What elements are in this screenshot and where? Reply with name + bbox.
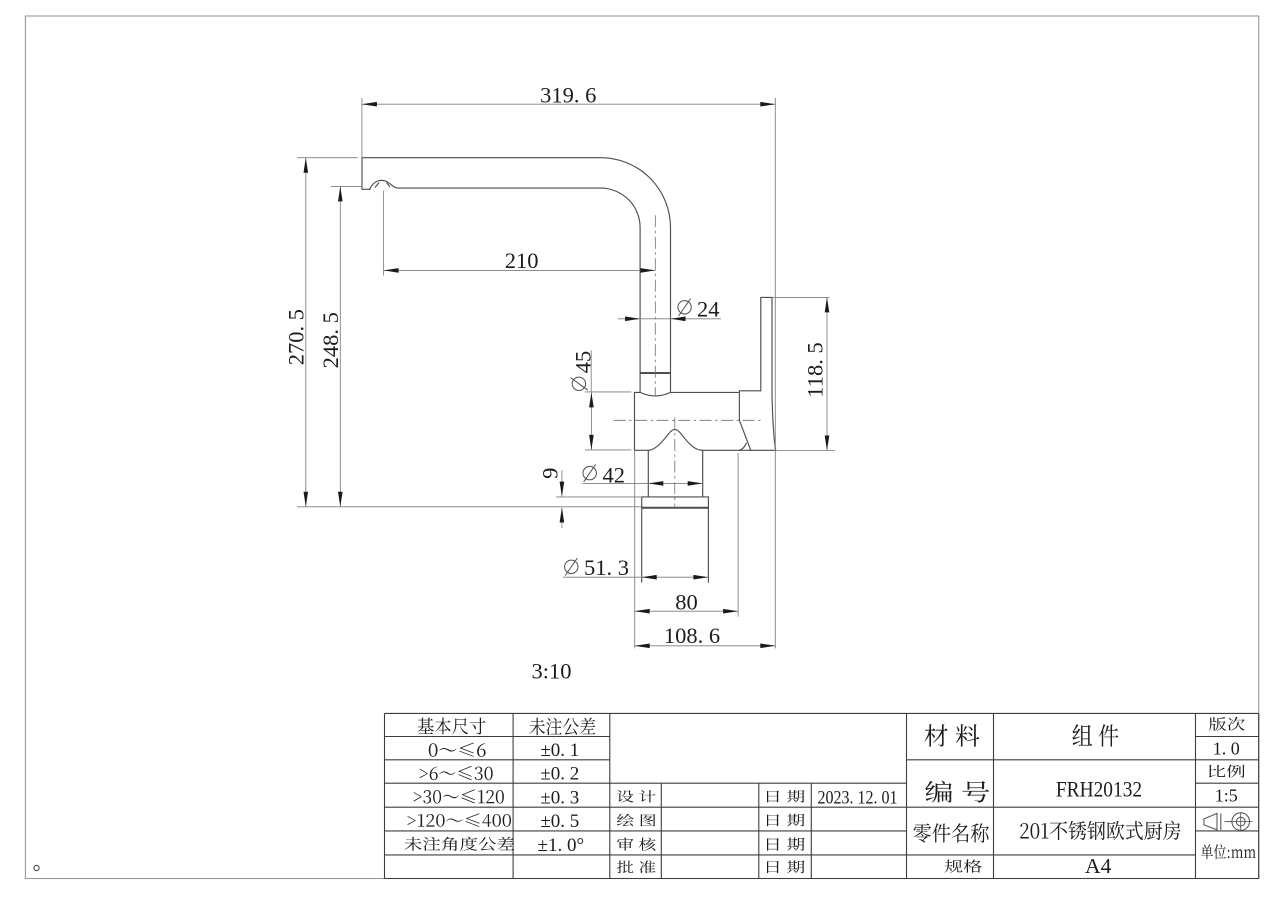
- text tol range row1: 0～≤6: [429, 743, 486, 757]
- svg-text:42: 42: [603, 462, 626, 487]
- dim 248.5 arrow top: [338, 186, 343, 201]
- base centerline: [674, 418, 676, 509]
- aerator hatch tick right: [387, 183, 390, 187]
- dim 118.5 arrow bottom: [825, 436, 830, 451]
- body top edge right: [671, 391, 740, 393]
- svg-text:24: 24: [697, 297, 720, 322]
- body right edge / cone vertical: [738, 391, 740, 421]
- dim phi42 arrow left: [648, 481, 663, 486]
- dim 248.5 line: [339, 186, 341, 506]
- svg-text:9: 9: [538, 468, 563, 479]
- text value assembly: 组 件: [1073, 724, 1119, 747]
- spout outer profile (top line + outer bend + pipe right edge): [362, 158, 671, 393]
- dim 108.6 arrow left: [635, 644, 650, 649]
- row line y855: [385, 854, 1196, 856]
- body left edge: [634, 392, 636, 450]
- vertical: tolerance col divider: [512, 713, 514, 878]
- dim 118.5 extension bottom: [776, 450, 835, 452]
- dim phi51.3 line with leader: [563, 576, 708, 578]
- wall line: [774, 98, 776, 648]
- text tol range row3: >30～≤120: [414, 789, 504, 803]
- dim 9 line top: [561, 470, 563, 496]
- text label date 1: 日 期: [767, 790, 805, 803]
- text tol range row2: >6～≤30: [420, 766, 493, 780]
- row line y736: [385, 736, 610, 738]
- bracket top edge: [761, 296, 772, 298]
- dim 270.5 arrow bottom: [304, 492, 309, 507]
- text label date 3: 日 期: [767, 838, 805, 851]
- svg-text:2023. 12. 01: 2023. 12. 01: [818, 787, 898, 808]
- vertical: info section left: [906, 713, 908, 878]
- table outline and grid: [385, 713, 1259, 878]
- dim 270.5 extension top: [297, 157, 358, 159]
- svg-text:270. 5: 270. 5: [283, 309, 308, 365]
- table top edge: [385, 712, 1259, 714]
- dim 210 arrow left: [384, 268, 399, 273]
- dim phi42 symbol: [583, 464, 596, 481]
- base cylinder phi42 left: [647, 450, 649, 497]
- base cylinder phi42 right: [702, 450, 704, 497]
- dim phi45 leader vertical: [590, 351, 592, 392]
- table left edge: [384, 713, 386, 878]
- dim phi45 symbol: [571, 377, 588, 390]
- dim 80 extension left: [634, 450, 636, 648]
- dim 210 arrow right: [640, 268, 655, 273]
- text label material: 材 料: [924, 724, 979, 747]
- bracket left arm: [760, 297, 762, 390]
- svg-text:1. 0: 1. 0: [1213, 739, 1240, 759]
- dim 108.6 arrow right: [760, 644, 775, 649]
- dim phi45 extension top: [585, 391, 631, 393]
- svg-text:248. 5: 248. 5: [318, 312, 343, 368]
- row line y783: [385, 782, 907, 784]
- dim 248.5 arrow bottom: [338, 492, 343, 507]
- body bottom edge left segment: [635, 449, 649, 451]
- bracket step: [739, 390, 760, 392]
- text value part name: 201不锈钢欧式厨房: [1020, 821, 1180, 840]
- symbol large-end line: [1220, 813, 1222, 830]
- svg-text:FRH20132: FRH20132: [1056, 776, 1142, 801]
- flange top: [642, 496, 709, 498]
- text label draw: 绘 图: [617, 814, 656, 827]
- row line y760: [385, 759, 610, 761]
- dim 270.5 arrow top: [304, 158, 309, 173]
- body axis centerline: [614, 419, 761, 421]
- flange left: [641, 497, 643, 508]
- dim 118.5 arrow top: [825, 297, 830, 312]
- text label check: 审 核: [617, 838, 655, 851]
- text label number: 编 号: [925, 781, 989, 803]
- vertical: last col left: [1195, 713, 1197, 878]
- dim phi24 line: [618, 318, 721, 320]
- dim 118.5 extension top: [772, 296, 830, 298]
- shared bottom extension line: [297, 506, 642, 508]
- vertical: date label col: [758, 783, 760, 878]
- text label design: 设 计: [617, 790, 656, 803]
- svg-text:3:10: 3:10: [531, 659, 571, 684]
- dim 248.5 extension top: [331, 185, 362, 187]
- table right edge: [1258, 713, 1260, 878]
- pipe centerline: [654, 215, 656, 396]
- dim phi45 arrow top: [589, 392, 594, 407]
- dim 319.6 line: [362, 103, 775, 105]
- dim 80 line: [635, 610, 738, 612]
- vertical: date value col: [810, 783, 812, 878]
- cone-body fillet arc: [739, 443, 746, 450]
- svg-text:±1. 0°: ±1. 0°: [538, 835, 585, 856]
- dim phi51.3 symbol: [565, 558, 578, 575]
- svg-text:108. 6: 108. 6: [664, 623, 720, 648]
- text tol header basic size: 基本尺寸: [418, 718, 486, 735]
- text tol range row4: >120～≤400: [407, 813, 511, 827]
- dim phi45 line: [590, 392, 592, 450]
- dim 319.6 extension left: [361, 98, 363, 158]
- dim 210 line: [384, 269, 656, 271]
- bracket right edge: [772, 297, 776, 450]
- svg-text:118. 5: 118. 5: [802, 342, 827, 397]
- text tol range row5 angle: 未注角度公差: [404, 837, 514, 851]
- vertical: sign label col: [660, 783, 662, 878]
- dim phi51.3 arrow left: [642, 575, 657, 580]
- dim 108.6 line: [635, 645, 776, 647]
- dim 80 extension right: [737, 453, 739, 617]
- svg-text:±0. 5: ±0. 5: [540, 811, 579, 832]
- shank phi51.3 left: [641, 508, 643, 583]
- text tol header tolerance: 未注公差: [529, 718, 595, 736]
- dim phi24 arrow left: [625, 317, 640, 322]
- dim 9 arrow top: [560, 482, 565, 497]
- dim phi45 arrow bottom: [589, 435, 594, 450]
- symbol crosshair vertical: [1240, 812, 1242, 830]
- svg-text:±0. 2: ±0. 2: [540, 764, 579, 785]
- body top edge: [635, 391, 641, 393]
- dim 270.5 line: [305, 158, 307, 507]
- svg-text:±0. 3: ±0. 3: [540, 787, 579, 808]
- bell transition dome: [648, 430, 702, 451]
- pipe joint line: [640, 372, 670, 374]
- row line y807: [385, 806, 1259, 808]
- dim 80 arrow left: [635, 609, 650, 614]
- dim 9 arrow bottom: [560, 508, 565, 523]
- dim 118.5 line: [826, 297, 828, 450]
- first-angle projection symbol: [1204, 812, 1253, 830]
- text label approve: 批 准: [617, 860, 656, 873]
- dim phi51.3 arrow right: [693, 575, 708, 580]
- text label unit mm: 单位:mm: [1201, 844, 1256, 859]
- cone diagonal: [739, 420, 750, 450]
- aerator hatch tick left: [375, 183, 379, 187]
- pipe-body fillet dip: [640, 392, 670, 396]
- svg-text:210: 210: [505, 248, 539, 273]
- dim 319.6 arrow left: [362, 102, 377, 107]
- dim phi45 extension bottom: [585, 449, 631, 451]
- svg-text:45: 45: [570, 351, 595, 374]
- text label scale: 比例: [1209, 765, 1245, 778]
- symbol circle inner: [1236, 817, 1245, 826]
- flange bottom: [642, 507, 709, 509]
- symbol crosshair horizontal: [1229, 821, 1253, 823]
- svg-text:319. 6: 319. 6: [540, 83, 596, 108]
- svg-text:51. 3: 51. 3: [584, 555, 629, 580]
- table bottom edge: [385, 878, 1259, 880]
- spout inner profile (bottom line + inner bend + pipe left edge): [398, 188, 640, 392]
- symbol cone trapezoid: [1204, 813, 1217, 830]
- dim phi42 arrow right: [688, 481, 703, 486]
- dim phi42 line with leader: [583, 482, 703, 484]
- dim 210 extension left (aerator axis): [383, 191, 385, 276]
- shank phi51.3 right: [707, 508, 709, 583]
- svg-text:±0. 1: ±0. 1: [540, 740, 579, 761]
- spout tip left end: [362, 158, 370, 190]
- vertical: info label col: [993, 713, 995, 878]
- symbol circle outer: [1232, 813, 1250, 831]
- aerator bump: [370, 180, 399, 189]
- text label date 4: 日 期: [767, 860, 805, 873]
- body bottom edge right segment to wall: [703, 449, 776, 451]
- text label version: 版次: [1209, 717, 1245, 731]
- dim phi24 symbol: [678, 299, 691, 316]
- symbol axis dash: [1224, 821, 1231, 823]
- dim 9 line bottom: [561, 508, 563, 528]
- registration circle bottom-left: [34, 865, 39, 870]
- text label date 2: 日 期: [767, 814, 805, 827]
- row line y831: [385, 830, 907, 832]
- svg-text:A4: A4: [1085, 854, 1112, 878]
- svg-text:80: 80: [675, 590, 698, 615]
- flange right: [707, 497, 709, 508]
- vertical: tolerance table right: [609, 713, 611, 878]
- dim 9 extension top: [556, 496, 642, 498]
- text label part name: 零件名称: [913, 823, 989, 842]
- dim phi24 arrow right: [671, 317, 686, 322]
- svg-text:1:5: 1:5: [1215, 785, 1238, 805]
- dim 80 arrow right: [723, 609, 738, 614]
- text label spec: 规格: [945, 859, 982, 872]
- dim 319.6 arrow right: [760, 102, 775, 107]
